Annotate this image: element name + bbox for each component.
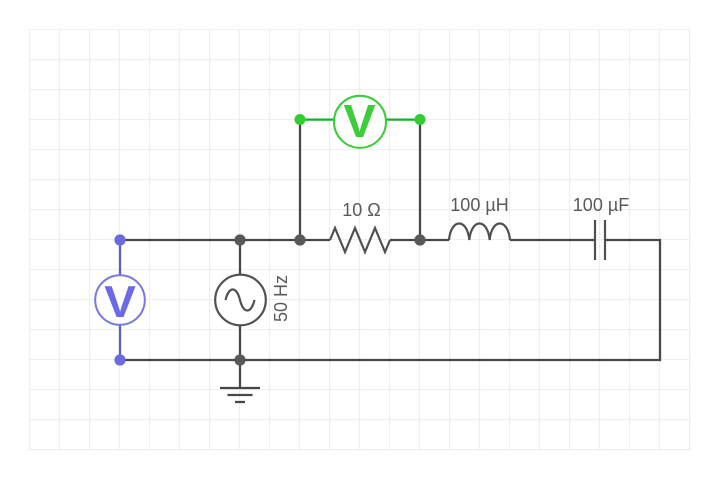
svg-text:50 Hz: 50 Hz <box>271 275 291 322</box>
svg-text:100 µF: 100 µF <box>573 195 629 215</box>
svg-text:V: V <box>343 96 376 148</box>
svg-text:10 Ω: 10 Ω <box>342 200 380 220</box>
svg-text:100 µH: 100 µH <box>450 195 508 215</box>
svg-text:V: V <box>104 277 136 327</box>
